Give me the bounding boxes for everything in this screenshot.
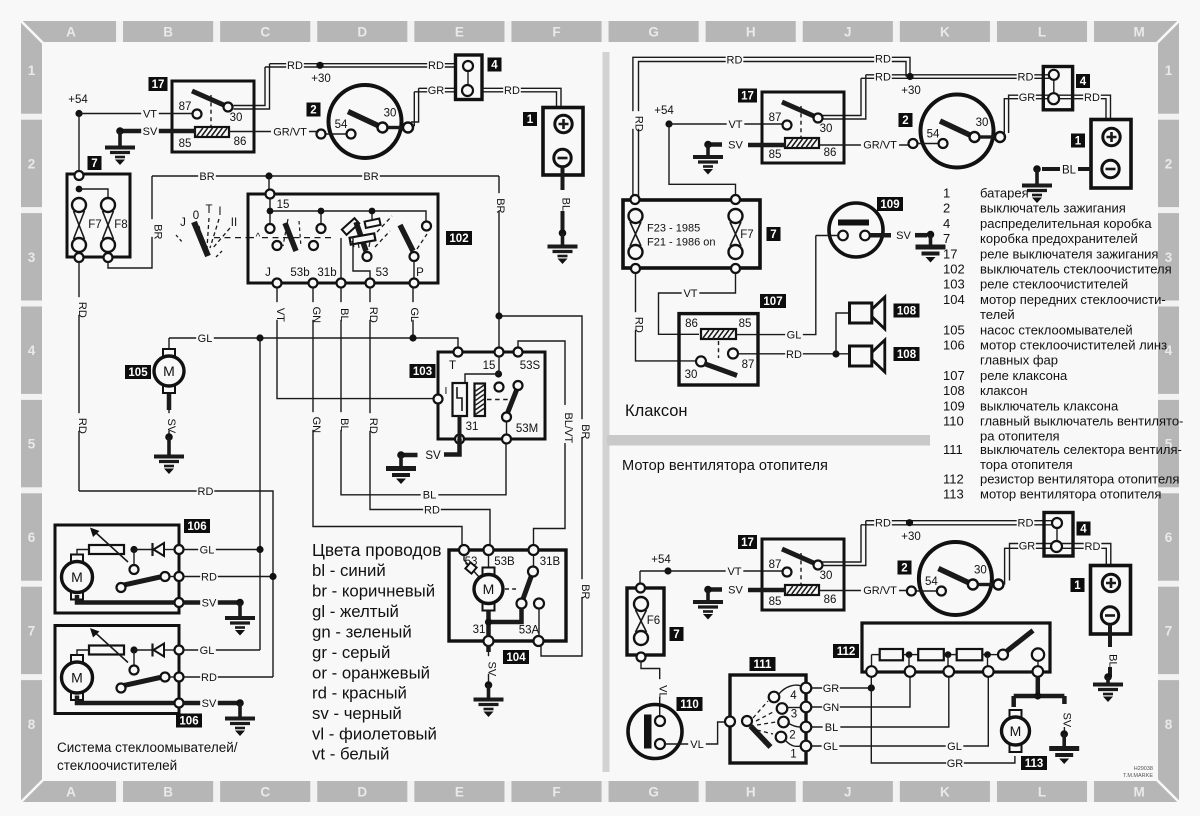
relay 107 terminal 87 xyxy=(728,349,738,359)
svg-text:J: J xyxy=(265,267,271,279)
switch 102 tilted contact top-mid xyxy=(365,219,381,228)
svg-text:BL: BL xyxy=(1062,165,1077,177)
ground at 106 xyxy=(225,599,255,636)
battery minus terminal xyxy=(1101,607,1118,624)
fuse F7 xyxy=(72,198,86,252)
svg-text:VL: VL xyxy=(690,739,703,751)
node +30 junction dot xyxy=(316,62,323,69)
switch 102 blade3 dashed xyxy=(417,234,427,249)
wire BL from 111 xyxy=(811,677,949,727)
column letter tabs bottom xyxy=(66,781,1145,802)
svg-text:J: J xyxy=(844,785,852,800)
relay 103 blade xyxy=(508,389,518,413)
svg-text:J: J xyxy=(180,217,186,229)
label GN rotated 2 xyxy=(307,412,323,433)
battery plus terminal xyxy=(1102,574,1119,591)
wire SV below motor 105 xyxy=(167,394,172,437)
label 17 black box horn xyxy=(738,89,757,103)
svg-text:насос стеклоомывателей: насос стеклоомывателей xyxy=(980,322,1133,337)
row number tabs left xyxy=(21,63,42,732)
svg-text:gr - серый: gr - серый xyxy=(312,643,390,662)
label 107 black box xyxy=(760,294,786,308)
svg-text:108: 108 xyxy=(943,383,965,398)
label GL out xyxy=(198,644,216,657)
svg-text:RD: RD xyxy=(1018,517,1034,529)
node RD junction xyxy=(269,573,276,580)
relay 103 53M stem xyxy=(506,422,508,435)
wire RD double to battery xyxy=(482,88,561,107)
relay 103 thermal lead thick xyxy=(458,416,462,439)
svg-text:мотор стеклоочистителей линз: мотор стеклоочистителей линз xyxy=(980,338,1167,353)
node SV bus dot xyxy=(1034,692,1041,699)
svg-text:rd - красный: rd - красный xyxy=(312,684,407,703)
ground at 109 xyxy=(916,231,946,263)
svg-text:30: 30 xyxy=(230,112,243,124)
svg-text:I: I xyxy=(445,385,448,397)
svg-text:30: 30 xyxy=(976,117,989,129)
svg-text:GR: GR xyxy=(1019,541,1036,553)
node horn junction dot xyxy=(832,350,839,357)
label RD 107 xyxy=(785,348,803,361)
svg-text:2: 2 xyxy=(902,115,908,127)
112 switch contact circle xyxy=(998,650,1008,660)
ignition output link xyxy=(980,135,995,138)
svg-text:53S: 53S xyxy=(520,360,541,372)
label BL 111 xyxy=(823,721,841,734)
label SV 109 xyxy=(895,229,913,242)
label 105 black box xyxy=(125,365,151,379)
wire RD box4 to battery right xyxy=(1059,95,1111,119)
svg-text:реле клаксона: реле клаксона xyxy=(980,368,1068,383)
104 thick 31 path xyxy=(489,609,522,653)
wire BL drop xyxy=(341,288,506,495)
label GL bottom xyxy=(946,740,964,753)
switch 102 dashed axis inside xyxy=(248,232,335,243)
label RD at box4 right xyxy=(1017,70,1035,83)
component legend list xyxy=(943,186,1183,502)
label 103 black box xyxy=(410,364,436,378)
label RD rotated feed xyxy=(629,111,645,132)
wire BL thick to ground xyxy=(1042,167,1060,171)
svg-text:53b: 53b xyxy=(290,267,309,279)
svg-text:7: 7 xyxy=(673,629,679,641)
battery box xyxy=(1091,566,1131,635)
motor 106 terminals xyxy=(175,545,184,607)
relay 103 bottom terminals xyxy=(455,435,511,444)
relay 103 top terminals xyxy=(454,348,523,357)
ignition terminal 30 xyxy=(968,580,978,590)
svg-text:110: 110 xyxy=(943,414,964,429)
switch 102 bridge hatches xyxy=(352,241,370,248)
horn switch 109 contacts xyxy=(838,231,870,241)
svg-text:RD: RD xyxy=(727,54,743,66)
wire GL from 111 xyxy=(811,677,988,746)
svg-text:F21 - 1986 on: F21 - 1986 on xyxy=(647,237,716,249)
svg-text:GN: GN xyxy=(310,417,322,434)
motor 106 variable resistor xyxy=(89,646,124,655)
label VL 110 xyxy=(688,738,706,751)
wire +54 down to fusebox right xyxy=(669,124,736,196)
relay 17 coil xyxy=(785,138,819,148)
svg-text:5: 5 xyxy=(28,437,36,452)
label 104 black box xyxy=(503,650,529,664)
svg-text:31B: 31B xyxy=(540,556,561,568)
label 113 black box xyxy=(1021,756,1047,770)
svg-text:GN: GN xyxy=(310,307,322,324)
headlamp wiper motor 106 box xyxy=(55,626,179,714)
ground at SV heater xyxy=(693,586,723,620)
switch 102 blade 3 xyxy=(400,225,413,251)
label SV rotated at 105 xyxy=(162,413,178,434)
motor 106 terminals xyxy=(175,646,184,708)
switch 102 internal bus xyxy=(270,198,426,221)
label VT 107 xyxy=(682,287,700,300)
motor M106 xyxy=(62,555,93,600)
wire from fuse F8 to BR bus xyxy=(108,176,152,268)
label SV xyxy=(141,125,159,138)
svg-text:GL: GL xyxy=(198,333,213,345)
label GR bottom xyxy=(946,757,964,770)
wire RD long from left to 106 bus xyxy=(79,491,273,677)
wire SV thick into relay coil xyxy=(120,129,196,134)
upper motor 106 group xyxy=(55,525,277,636)
svg-text:85: 85 xyxy=(179,138,192,150)
svg-text:BL: BL xyxy=(338,308,350,321)
label RD top left xyxy=(726,53,744,66)
svg-text:2: 2 xyxy=(789,730,795,742)
wire bracket from relay 17 terminal 30 to RD line xyxy=(234,64,270,109)
motor 106 switch blade xyxy=(124,577,160,585)
svg-text:GR/VT: GR/VT xyxy=(273,127,307,139)
svg-text:113: 113 xyxy=(1025,758,1044,770)
104 SV wire down xyxy=(488,652,490,685)
svg-text:C: C xyxy=(260,25,270,40)
svg-text:8: 8 xyxy=(1165,717,1173,732)
motor 106 switch contact xyxy=(161,673,175,682)
label 111 black box xyxy=(750,657,776,671)
node +54 dot heater xyxy=(664,567,671,574)
wire GL out xyxy=(184,549,261,551)
switch 110 terminals xyxy=(655,716,665,749)
svg-text:T.M.MARKE: T.M.MARKE xyxy=(1123,773,1153,779)
svg-text:Цвета проводов: Цвета проводов xyxy=(312,540,441,560)
main fan switch 110 body xyxy=(628,705,682,759)
fuse box 7 bottom terminals xyxy=(75,253,113,262)
motor 106 wire to resistor xyxy=(77,550,89,556)
battery plus terminal xyxy=(555,115,572,132)
label 7 black box heater xyxy=(670,627,684,641)
label VT right xyxy=(727,118,745,131)
svg-text:3: 3 xyxy=(791,709,797,721)
svg-text:M: M xyxy=(163,363,175,379)
svg-text:15: 15 xyxy=(277,199,290,211)
svg-text:RD: RD xyxy=(367,307,379,323)
wire bracket relay17R to RD xyxy=(822,75,866,119)
svg-text:RD: RD xyxy=(424,504,440,516)
wire VT fusebox to relay 107 xyxy=(659,273,736,334)
label GR/VT left xyxy=(271,125,309,138)
ground at relay 103 xyxy=(386,451,416,484)
label SV heater xyxy=(727,583,745,596)
svg-text:or - оранжевый: or - оранжевый xyxy=(312,664,430,683)
svg-text:SV: SV xyxy=(202,597,217,609)
wire RD top double line (right panel) xyxy=(633,57,910,198)
svg-text:1: 1 xyxy=(1075,136,1082,148)
svg-text:RD: RD xyxy=(1085,541,1101,553)
label 1 black box heater xyxy=(1071,578,1085,592)
svg-text:C: C xyxy=(260,785,270,800)
label BL horizontal xyxy=(421,488,439,501)
relay 103 coil xyxy=(475,384,486,417)
label RD heater xyxy=(874,516,892,529)
svg-text:RD: RD xyxy=(201,672,217,684)
svg-text:3: 3 xyxy=(28,250,36,265)
svg-text:F6: F6 xyxy=(647,615,660,627)
label 108 upper xyxy=(894,304,920,318)
svg-text:87: 87 xyxy=(179,101,192,113)
switch 111 dashed fan xyxy=(753,701,776,734)
node GL junction upper 106 xyxy=(256,546,263,553)
node 31 dot xyxy=(485,618,492,625)
svg-text:31: 31 xyxy=(473,624,486,636)
svg-text:RD: RD xyxy=(428,60,444,72)
label 106 black box upper xyxy=(184,519,210,533)
svg-text:GN: GN xyxy=(823,702,840,714)
svg-text:SV: SV xyxy=(202,698,217,710)
label SV out xyxy=(200,697,218,710)
fuse box 7 with F6 xyxy=(627,584,664,662)
motor 106 SV thick bottom xyxy=(77,696,174,704)
relay 107 terminal 30 xyxy=(696,356,706,366)
label RD rotated drop 1 xyxy=(364,302,380,323)
relay 17 contact blade xyxy=(782,549,816,564)
svg-text:BL: BL xyxy=(560,198,572,211)
relay 17 box xyxy=(762,539,844,610)
relay 17 terminal 30 xyxy=(224,103,233,112)
relay 103 15 contact circle xyxy=(465,374,504,392)
switch 102 contact bridge arc xyxy=(350,233,376,244)
relay 103 thermal element xyxy=(453,383,468,416)
svg-text:BR: BR xyxy=(199,171,214,183)
svg-text:GL: GL xyxy=(787,330,802,342)
svg-text:E: E xyxy=(455,785,464,800)
wire +54 heater to fuse xyxy=(640,571,668,586)
node 112 dot2 xyxy=(945,651,952,658)
section divider bar xyxy=(607,435,930,446)
relay 107 dashed link xyxy=(718,341,720,358)
relay 103 blade top circle xyxy=(514,381,523,390)
wire VT to relay 87 right xyxy=(669,123,787,125)
wire BR corner down xyxy=(498,176,500,316)
row number tabs right xyxy=(1158,63,1179,732)
svg-text:103: 103 xyxy=(413,366,432,378)
svg-text:M: M xyxy=(483,581,495,597)
label 2 black box horn xyxy=(899,113,913,127)
svg-text:H: H xyxy=(746,785,756,800)
svg-text:RD: RD xyxy=(875,71,891,83)
label RD horizontal xyxy=(423,503,441,516)
label GR right xyxy=(1018,91,1036,104)
svg-text:vl - фиолетовый: vl - фиолетовый xyxy=(312,725,437,744)
svg-text:резистор вентилятора отопителя: резистор вентилятора отопителя xyxy=(980,472,1179,487)
svg-text:F: F xyxy=(552,785,560,800)
svg-text:RD: RD xyxy=(367,418,379,434)
svg-text:17: 17 xyxy=(741,91,754,103)
relay U17 ignition relay (horn section) xyxy=(762,92,844,163)
wire GR/VT to ignition right xyxy=(820,144,909,146)
svg-text:+30: +30 xyxy=(311,73,331,85)
svg-text:53A: 53A xyxy=(519,625,540,637)
svg-text:+54: +54 xyxy=(651,554,671,566)
relay 17 coil xyxy=(785,585,819,595)
distribution box 4 (heater section) xyxy=(1044,513,1073,557)
switch 102 blade 2 xyxy=(356,222,366,251)
svg-text:VT: VT xyxy=(727,566,741,578)
motor 106 switch blade xyxy=(124,678,160,686)
ground below 104 xyxy=(474,681,504,717)
label 2 black box left xyxy=(307,103,321,117)
ignition switch body xyxy=(919,542,992,615)
horn switch 109 bar xyxy=(838,220,869,226)
svg-text:GR: GR xyxy=(947,758,964,770)
wire RD from fuse box down left side xyxy=(78,262,80,491)
svg-text:31b: 31b xyxy=(317,267,336,279)
svg-text:F7: F7 xyxy=(740,229,753,241)
svg-text:B: B xyxy=(163,25,173,40)
switch 111 position numbers xyxy=(789,690,797,761)
svg-text:главный выключатель вентилято-: главный выключатель вентилято- xyxy=(980,414,1183,429)
svg-text:GL: GL xyxy=(408,308,420,323)
svg-text:SV: SV xyxy=(143,126,158,138)
104 wire 53 diagonal xyxy=(464,555,479,577)
svg-text:H29038: H29038 xyxy=(1134,766,1153,772)
wire stem BR to terminal 15 xyxy=(268,176,270,190)
panel divider strip xyxy=(603,52,610,772)
label RD left xyxy=(286,59,304,72)
label VT xyxy=(141,107,159,120)
svg-text:53B: 53B xyxy=(494,556,515,568)
ignition GR/VT terminal xyxy=(317,130,326,139)
wire BR branch to 104 area xyxy=(499,316,582,656)
caption system label xyxy=(57,740,238,773)
label 109 black box xyxy=(877,197,903,211)
svg-text:+54: +54 xyxy=(654,105,674,117)
wire horn 1 feed xyxy=(836,313,850,354)
label GR heater xyxy=(1018,539,1036,552)
relay 103 SV thick wire xyxy=(444,439,460,455)
label VT rotated xyxy=(271,302,287,322)
svg-text:105: 105 xyxy=(943,322,965,337)
fuse box 7 (horn section) xyxy=(623,195,760,273)
relay 17 terminal 87 xyxy=(193,110,202,119)
label RD second xyxy=(874,70,892,83)
svg-text:86: 86 xyxy=(824,147,837,159)
svg-text:106: 106 xyxy=(943,338,965,353)
svg-text:RD: RD xyxy=(633,317,645,333)
switch 102 right bus terminal xyxy=(422,222,431,231)
svg-text:GR: GR xyxy=(1019,92,1036,104)
svg-text:BR: BR xyxy=(579,424,591,439)
relay 17 armature dashed link xyxy=(800,553,802,585)
wire 109 left to GL xyxy=(816,235,838,237)
svg-text:A: A xyxy=(66,25,76,40)
svg-text:распределительная коробка: распределительная коробка xyxy=(980,216,1152,231)
104 blade bottom circle xyxy=(517,599,527,609)
svg-text:30: 30 xyxy=(820,570,833,582)
104 top terminals xyxy=(459,545,539,555)
ignition terminal 30 xyxy=(378,123,388,133)
svg-text:BL: BL xyxy=(423,490,436,502)
switch 111 output terminals xyxy=(801,683,812,752)
svg-text:110: 110 xyxy=(680,699,699,711)
ignition output link xyxy=(388,126,403,129)
svg-text:мотор вентилятора отопителя: мотор вентилятора отопителя xyxy=(980,487,1161,502)
label 102 black box xyxy=(446,231,472,245)
label 7 black box horn xyxy=(767,227,781,241)
motor 106 node dot xyxy=(130,646,137,653)
112 blade xyxy=(1007,631,1033,652)
wire VL switch110 to 111 xyxy=(665,722,725,744)
svg-text:M: M xyxy=(1010,723,1022,739)
svg-text:7: 7 xyxy=(1165,623,1173,638)
ignition outer terminal xyxy=(993,580,1003,590)
112 internal links xyxy=(872,654,999,656)
svg-text:102: 102 xyxy=(943,262,965,277)
wire GN from 111 xyxy=(811,677,910,707)
svg-text:VL: VL xyxy=(657,685,669,698)
svg-text:15: 15 xyxy=(483,360,496,372)
node 112 dot1 xyxy=(906,651,913,658)
wire VT drop from J to relay 103 xyxy=(277,288,434,399)
wire SV thick heater xyxy=(708,587,786,592)
battery minus terminal xyxy=(554,149,571,166)
svg-text:1: 1 xyxy=(28,63,36,78)
switch 110 bar xyxy=(644,715,652,749)
svg-text:SV: SV xyxy=(425,450,441,462)
relay 103 left terminal xyxy=(434,395,443,404)
switch 102 middle contact circle xyxy=(363,252,372,261)
wire GR down to motor 113 xyxy=(871,688,1015,763)
motor 106 variable resistor xyxy=(89,545,124,554)
motor 106 resistor arrow xyxy=(90,628,128,663)
switch 111 contacts xyxy=(769,692,789,743)
column letter tabs top xyxy=(66,21,1145,42)
battery minus terminal xyxy=(1102,160,1119,177)
104 31B stem xyxy=(533,555,535,567)
front wiper motor 104 box xyxy=(449,550,566,641)
switch 111 contact links xyxy=(779,685,803,746)
svg-text:главных фар: главных фар xyxy=(980,353,1058,368)
wire BL battery horn xyxy=(1078,167,1091,171)
svg-text:GL: GL xyxy=(200,544,215,556)
svg-text:7: 7 xyxy=(91,158,97,170)
ignition switch blade xyxy=(940,121,973,137)
label 110 black box xyxy=(677,697,703,711)
distribution box 4 (horn section) xyxy=(1043,67,1072,110)
svg-text:53: 53 xyxy=(376,267,389,279)
svg-text:7: 7 xyxy=(770,229,776,241)
ignition terminal 54 link xyxy=(326,133,347,135)
node 15 dot xyxy=(495,370,502,377)
svg-text:M: M xyxy=(1133,785,1144,800)
svg-text:104: 104 xyxy=(943,292,965,307)
switch 102 wire 31b xyxy=(340,238,342,279)
svg-text:gl - желтый: gl - желтый xyxy=(312,602,399,621)
svg-text:4: 4 xyxy=(1080,524,1087,536)
svg-text:2: 2 xyxy=(1165,156,1173,171)
svg-text:54: 54 xyxy=(925,576,938,588)
label GL main xyxy=(196,332,214,345)
